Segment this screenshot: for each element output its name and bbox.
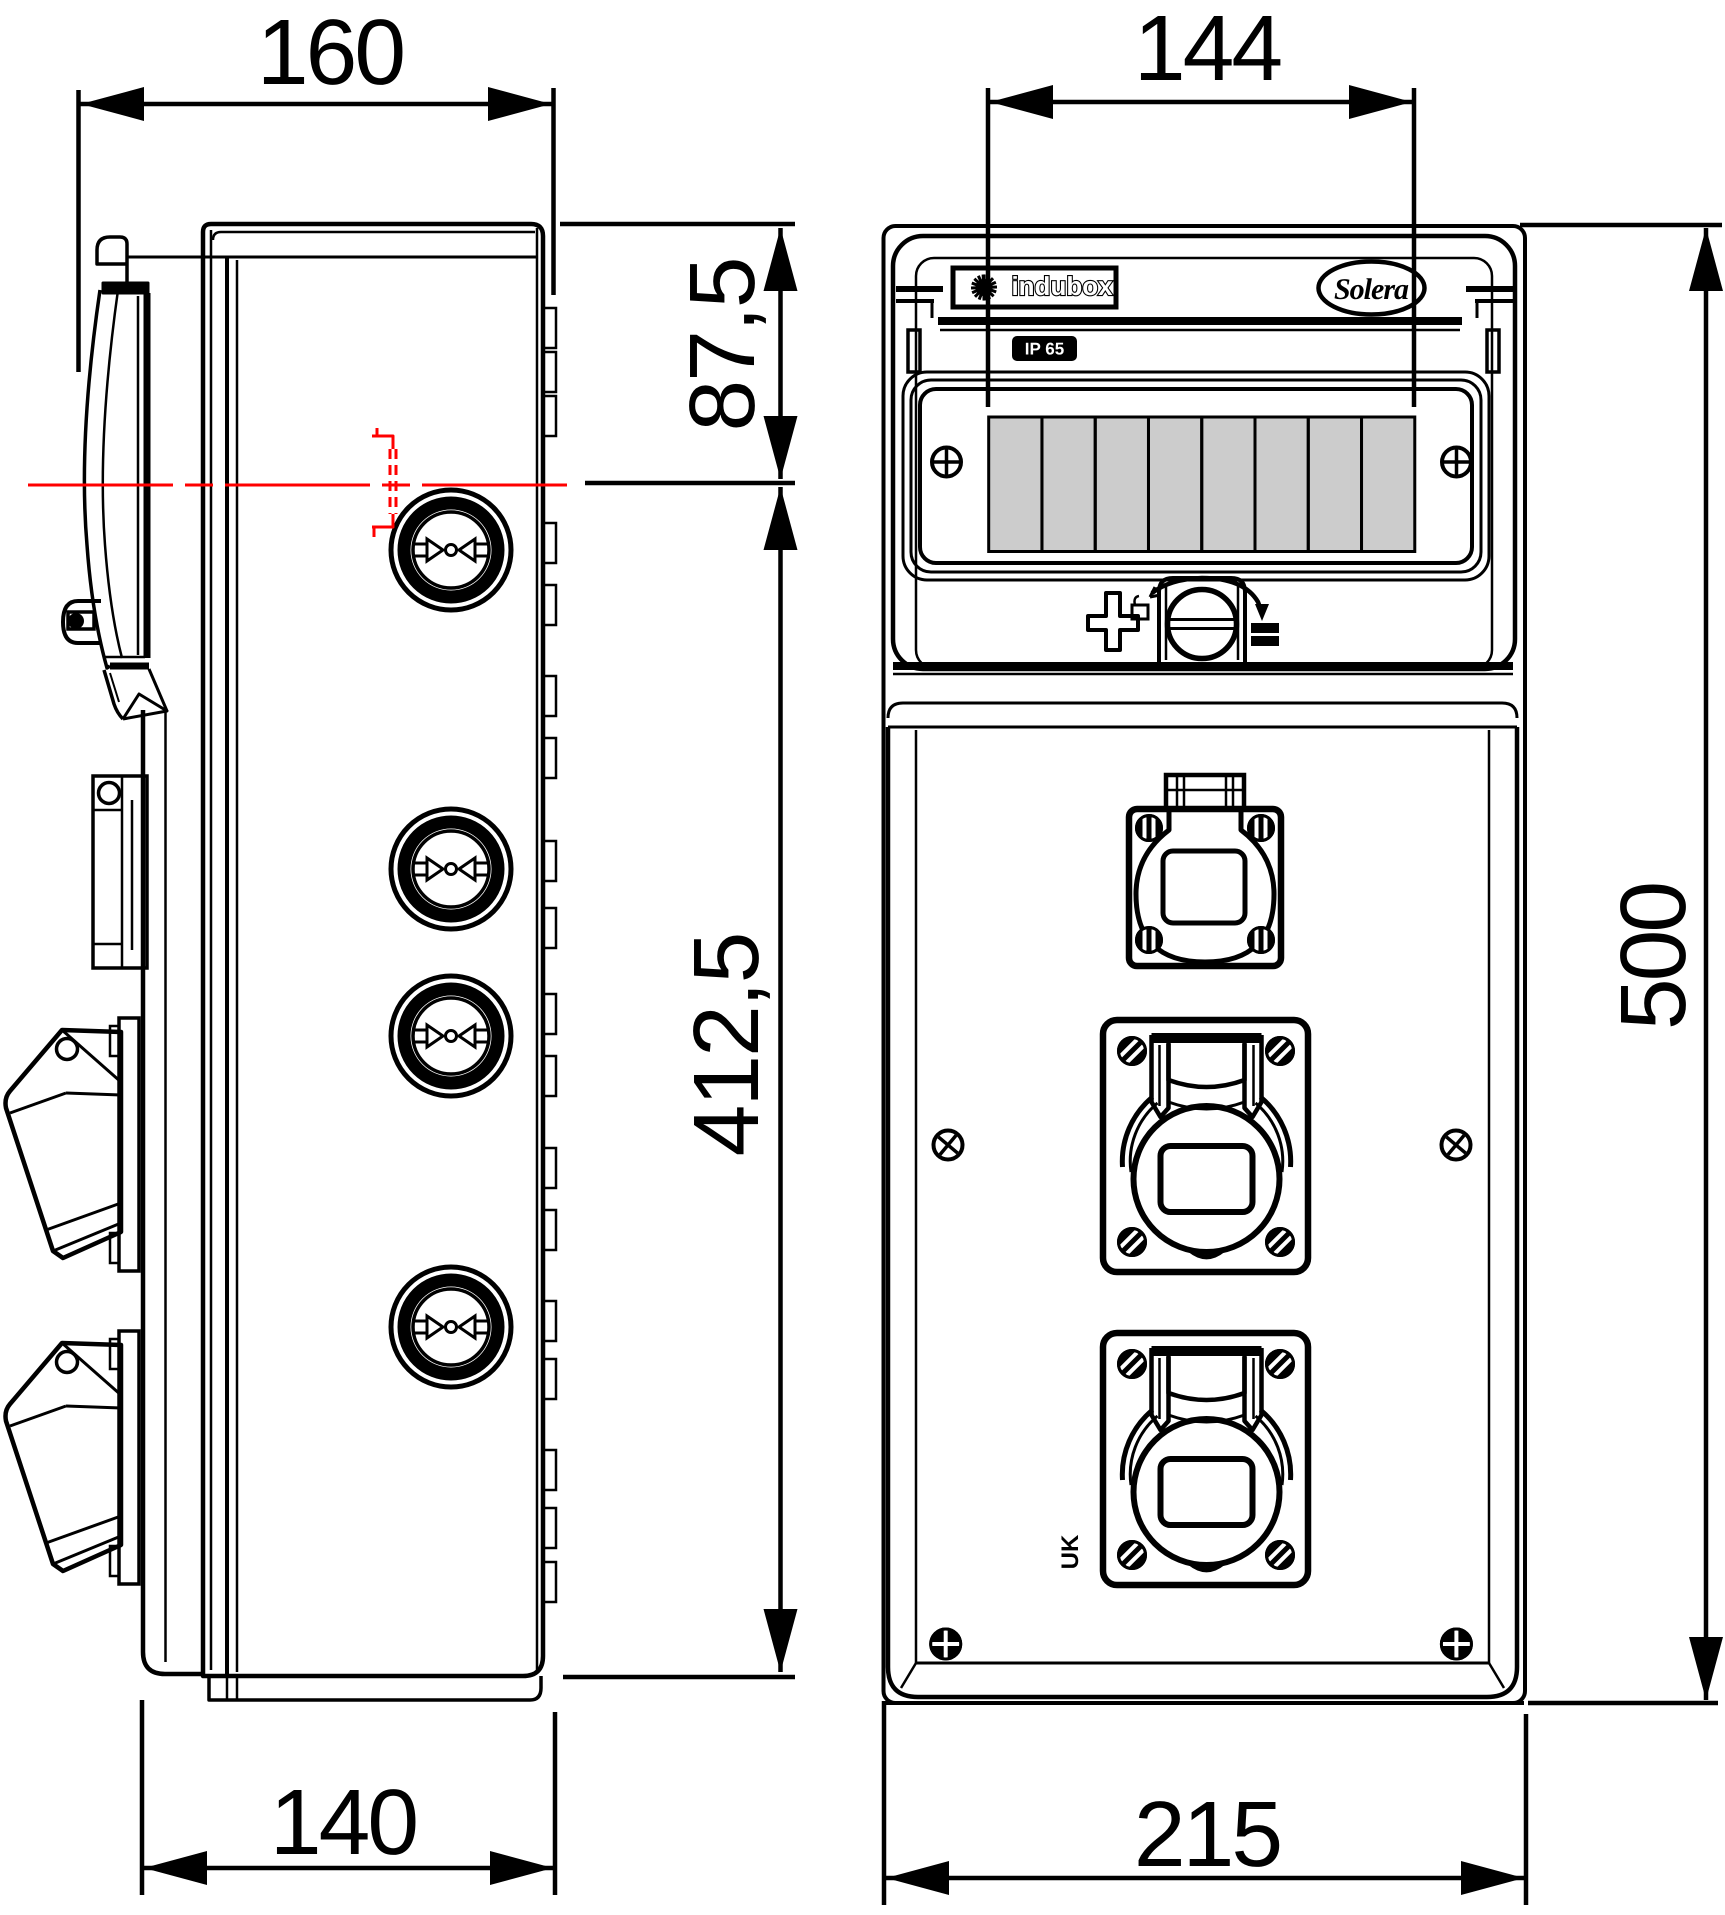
svg-text:UK: UK [1057,1534,1084,1569]
locked position bars [1252,624,1278,645]
panel screw mid right [1438,1127,1473,1162]
side view DIN-rail tabs on back edge [543,308,556,1602]
panel screw mid left [930,1127,965,1162]
dimension 144 (top of front view) [988,0,1414,407]
side view door latch knob [63,601,101,643]
svg-text:140: 140 [270,1770,416,1874]
back box bottom line [885,1701,1524,1705]
front view lid (upper section) [893,236,1515,669]
svg-text:87,5: 87,5 [670,258,774,431]
centerline black extension to dimension [585,481,795,486]
side view mid mounting plate with hole [93,776,147,968]
dimension 215 (bottom of front view) [884,1701,1526,1905]
modular breakers (gray) [989,417,1415,552]
window screw left [932,448,961,477]
unlock cross symbol [1088,593,1148,650]
Solera oval logo [1319,262,1425,315]
svg-text:500: 500 [1601,884,1705,1030]
dimension 140 (bottom left) [142,1700,555,1895]
lock bezel and cylinder [1159,578,1245,662]
svg-text:160: 160 [257,0,403,104]
svg-text:indubox: indubox [1011,271,1113,301]
dimension 412,5 (right of side view) [563,487,798,1677]
side view lid bottom bracket [103,657,167,719]
front view lid inner line [916,258,1492,668]
dimension 500 (right of front view) [1520,225,1723,1703]
side view door window frame heavy edge [138,293,147,658]
side view transparent door curved face [84,290,122,668]
svg-text:144: 144 [1134,0,1280,100]
breaker window frames [903,372,1489,580]
side view: right extension line of dim 160 [551,88,556,295]
schuko flange screws [1137,816,1274,953]
side view back edge inner line [213,228,537,1672]
side view knockout circle 1 [391,490,511,610]
unlock arrow arc [1150,578,1269,621]
front view side ticks [908,330,1499,372]
side view bottom lip [209,1676,541,1700]
red DIN rail clip symbol (dashed) [372,428,396,537]
schuko socket hinge tab [1166,775,1244,809]
side view knockout circle 2 [391,809,511,929]
side view knockout circle 4 [391,1267,511,1387]
schuko inner recess [1163,851,1245,923]
lower section inner lines [901,730,1504,1688]
side view front face lines [211,230,237,1676]
lid bottom heavy line [893,666,1513,674]
side view knockout circle 3 [391,976,511,1096]
side view top second line [127,256,536,259]
side view CEE socket B (protruding, lower) [6,1331,140,1584]
front view back box outline [884,226,1526,1703]
schuko socket body [1136,809,1274,962]
svg-text:215: 215 [1134,1782,1280,1886]
svg-text:412,5: 412,5 [674,934,778,1157]
dimension 160 (top left) [80,0,552,121]
indubox label [953,268,1116,307]
panel screw bottom right [1441,1629,1471,1659]
IP 65 badge [1013,337,1076,360]
panel screw bottom left [931,1629,961,1659]
side view CEE socket A (protruding, upper) [6,1018,140,1271]
side view main body outline [203,224,543,1676]
schuko socket flange [1129,809,1281,966]
CEE socket bottom (front) [1103,1333,1308,1585]
window screw right [1442,448,1471,477]
UK marking [1057,1534,1084,1569]
svg-text:Solera: Solera [1334,273,1409,306]
side view door top corner block [97,237,148,293]
svg-text:IP 65: IP 65 [1025,340,1064,359]
side view: left extension line of dim 160 [76,90,81,372]
front view lower section outline [888,727,1517,1697]
CEE socket middle (front) [1103,1020,1308,1272]
red centerline [28,484,570,487]
front view hinge lugs and heavy pivot line [896,289,1513,330]
neck lines between sections [888,703,1517,727]
dimension 87,5 (right of side view) [560,224,798,479]
side view lid front face [143,710,203,1674]
